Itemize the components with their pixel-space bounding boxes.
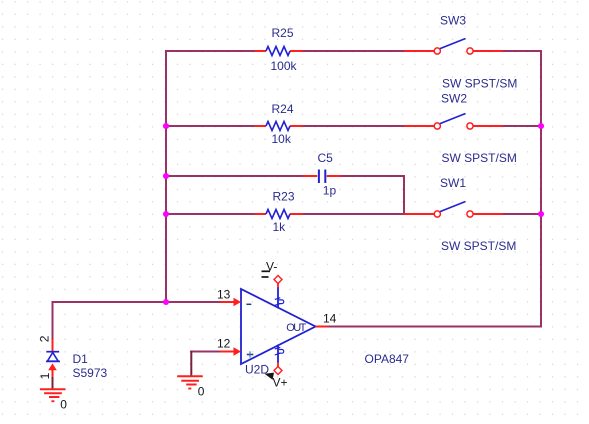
wire diode drop vertical	[52, 301, 54, 340]
op-amp V+ power pin	[275, 345, 284, 363]
svg-text:1p: 1p	[323, 184, 337, 198]
wire R23 row middle segment	[303, 213, 404, 215]
svg-text:100k: 100k	[271, 59, 298, 73]
op-amp V- power pin	[275, 287, 284, 309]
svg-text:OPA847: OPA847	[365, 352, 410, 366]
svg-text:2: 2	[38, 335, 52, 342]
wire noninverting ground drop	[190, 351, 192, 377]
svg-text:R25: R25	[272, 26, 294, 40]
switch SW1	[404, 202, 503, 218]
svg-text:14: 14	[323, 312, 337, 326]
svg-text:0: 0	[60, 398, 67, 412]
junction at left bus / C5 row	[163, 173, 169, 179]
svg-text:V+: V+	[273, 376, 288, 390]
svg-text:1: 1	[38, 372, 52, 379]
svg-text:D1: D1	[73, 352, 89, 366]
switch SW3	[404, 39, 503, 55]
op-amp pin 13 input arrow	[220, 298, 241, 307]
wire top row right segment	[503, 50, 542, 52]
svg-text:SW3: SW3	[440, 14, 466, 28]
ground 0 at photodiode	[40, 389, 66, 402]
svg-text:13: 13	[217, 288, 231, 302]
junction at right bus / SW1 row	[538, 211, 544, 217]
wire C5 drop vertical	[403, 175, 405, 214]
svg-text:SW SPST/SM: SW SPST/SM	[442, 151, 517, 165]
wire R24 row right segment	[503, 125, 541, 127]
svg-text:SW1: SW1	[440, 176, 466, 190]
resistor R24	[255, 122, 304, 131]
junction at left bus / inverting input row	[163, 299, 169, 305]
svg-text:R23: R23	[273, 190, 295, 204]
photodiode D1	[46, 339, 60, 377]
wire R23 row right segment	[503, 213, 541, 215]
svg-text:12: 12	[217, 337, 231, 351]
wire R24 row left segment	[166, 125, 255, 127]
power symbol V-	[262, 260, 283, 288]
op-amp pin 12 input arrow	[220, 347, 241, 356]
wire right bus vertical	[540, 50, 542, 328]
svg-text:R24: R24	[272, 102, 294, 116]
wire top row middle segment	[303, 50, 404, 52]
wire C5 row left segment	[166, 175, 303, 177]
junction at left bus / R24 row	[163, 123, 169, 129]
wire output row	[328, 326, 542, 328]
svg-text:10k: 10k	[272, 132, 292, 146]
switch SW2	[404, 114, 503, 130]
svg-text:1k: 1k	[273, 220, 287, 234]
svg-text:SW SPST/SM: SW SPST/SM	[441, 239, 516, 253]
svg-text:OUT: OUT	[286, 322, 306, 334]
op-amp output pin 14	[316, 326, 329, 328]
svg-text:SW SPST/SM: SW SPST/SM	[442, 77, 517, 91]
svg-text:C5: C5	[318, 151, 334, 165]
wire R24 row middle segment	[303, 125, 404, 127]
svg-text:0: 0	[198, 385, 205, 399]
resistor R23	[255, 210, 304, 219]
wire noninverting input horizontal	[190, 351, 220, 353]
op-amp U2D body	[241, 289, 316, 364]
power symbol V+	[265, 363, 288, 390]
resistor R25	[255, 47, 304, 56]
wire C5 row right segment	[341, 175, 404, 177]
wire diode to ground	[52, 377, 54, 390]
wire top row left segment	[165, 50, 255, 52]
wire left bus vertical	[165, 50, 167, 302]
junction at left bus / R23 row	[163, 211, 169, 217]
junction at right bus / SW2 row	[538, 123, 544, 129]
capacitor C5	[303, 170, 341, 184]
wire R23 row left segment	[166, 213, 255, 215]
svg-text:S5973: S5973	[73, 366, 108, 380]
svg-text:SW2: SW2	[441, 92, 467, 106]
wire inverting input row	[53, 301, 221, 303]
ground 0 at noninverting input	[177, 376, 203, 389]
